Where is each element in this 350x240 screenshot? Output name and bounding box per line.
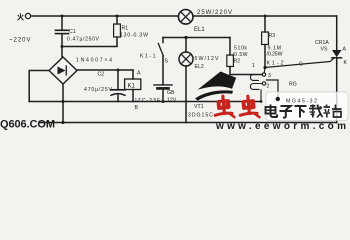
svg-text:5W/12V: 5W/12V	[195, 56, 220, 62]
svg-text:A: A	[137, 71, 141, 77]
svg-text:C1: C1	[69, 29, 76, 35]
svg-text:1: 1	[252, 63, 255, 69]
svg-text:K1-1: K1-1	[140, 54, 156, 60]
svg-text:EL2: EL2	[195, 64, 204, 70]
svg-text:3DG15C: 3DG15C	[188, 113, 213, 119]
svg-text:C2: C2	[98, 72, 105, 78]
svg-text:R1: R1	[122, 26, 129, 32]
svg-text:25W/220V: 25W/220V	[197, 10, 232, 16]
svg-text:S: S	[165, 59, 169, 65]
svg-text:K: K	[344, 60, 348, 66]
svg-text:K1: K1	[128, 83, 136, 89]
svg-text:GB: GB	[167, 90, 175, 96]
svg-text:12V: 12V	[167, 98, 177, 104]
svg-text:~220V: ~220V	[9, 38, 31, 44]
svg-text:B: B	[135, 105, 139, 111]
svg-text:3: 3	[268, 73, 271, 79]
svg-text:R3: R3	[269, 33, 276, 39]
svg-text:A: A	[343, 47, 347, 53]
svg-text:Q606.COM: Q606.COM	[0, 118, 55, 130]
svg-text:510k: 510k	[234, 46, 247, 52]
svg-text:0.47µ/250V: 0.47µ/250V	[67, 36, 100, 42]
svg-text:RG: RG	[289, 82, 297, 88]
svg-text:470µ/25V: 470µ/25V	[84, 87, 113, 93]
svg-text:VT1: VT1	[194, 104, 204, 110]
svg-text:G: G	[299, 62, 303, 68]
svg-text:130-0.3W: 130-0.3W	[120, 33, 148, 39]
svg-text:CR1A: CR1A	[315, 40, 329, 46]
svg-text:2: 2	[267, 84, 270, 90]
svg-text:/0.5W: /0.5W	[233, 52, 248, 58]
svg-text:R2: R2	[234, 59, 241, 65]
svg-text:VS: VS	[321, 47, 328, 53]
svg-text:EL1: EL1	[194, 27, 205, 33]
svg-text:JZC-23F: JZC-23F	[134, 98, 160, 104]
svg-text:/0.25W: /0.25W	[267, 51, 283, 57]
